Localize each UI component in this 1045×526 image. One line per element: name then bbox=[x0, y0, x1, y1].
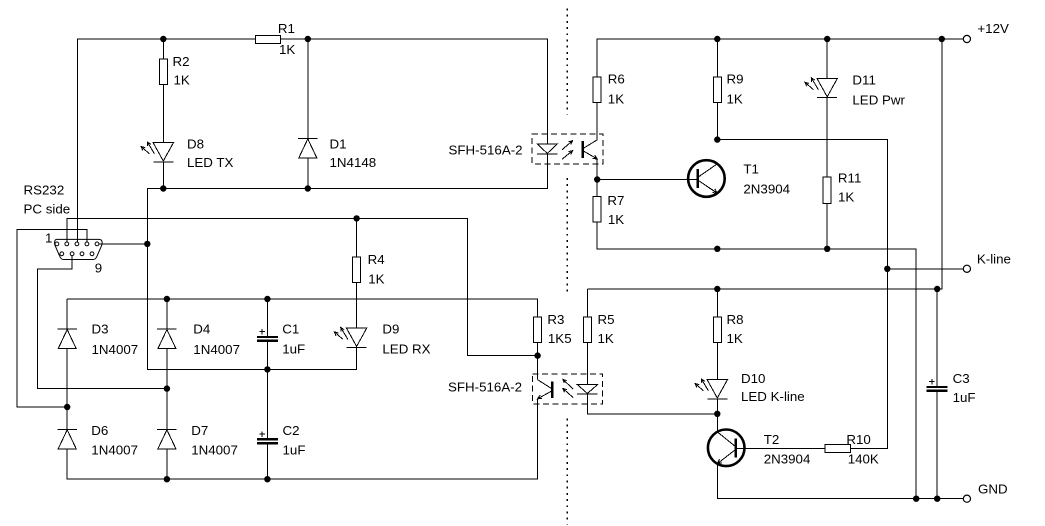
wire R4 top lead bbox=[356, 218, 358, 257]
diode D1 bbox=[298, 138, 318, 158]
junction C3 top bbox=[934, 286, 940, 292]
opto U1 phototransistor bbox=[581, 140, 597, 159]
page divider dotted line bbox=[566, 178, 568, 294]
resistor R9 bbox=[713, 77, 721, 102]
svg-text:LED TX: LED TX bbox=[187, 155, 234, 170]
wire D3 to D6 bbox=[66, 349, 68, 430]
wire R4 to D9 bbox=[356, 283, 358, 328]
wire R5 to opto2 LED bbox=[586, 343, 588, 385]
terminal GND bbox=[963, 495, 970, 502]
junction pin5 node bbox=[144, 241, 150, 247]
opto U2 light arrows bbox=[563, 379, 573, 397]
optocoupler U1 SFH-516A-2 dashed box bbox=[532, 134, 603, 164]
svg-text:1N4007: 1N4007 bbox=[92, 342, 139, 357]
wire C1 bottom to C2 top bbox=[266, 342, 268, 438]
wire R2 to D8 bbox=[162, 85, 164, 143]
resistor R2 bbox=[159, 59, 167, 84]
wire DB9 pin4 to D3-D6 node bbox=[17, 229, 87, 407]
wire R9 top lead bbox=[716, 39, 718, 77]
junction D8 bottom bbox=[160, 185, 166, 191]
svg-text:K-line: K-line bbox=[977, 252, 1011, 267]
svg-text:LED RX: LED RX bbox=[382, 342, 430, 357]
wire DB9 pin5 to TX return rail bbox=[99, 243, 148, 245]
svg-text:1K: 1K bbox=[608, 92, 624, 107]
svg-text:2N3904: 2N3904 bbox=[764, 452, 811, 467]
optocoupler U2 SFH-516A-2 dashed box bbox=[533, 374, 603, 404]
diode D3 bbox=[57, 329, 77, 349]
transistor T1 bbox=[688, 160, 725, 197]
svg-text:LED Pwr: LED Pwr bbox=[852, 93, 905, 108]
svg-text:D6: D6 bbox=[91, 423, 108, 438]
junction D1 bottom bbox=[305, 185, 311, 191]
wire R8 to D10 bbox=[716, 343, 718, 380]
page divider dotted line bbox=[566, 9, 568, 115]
page divider dotted line bbox=[566, 419, 568, 525]
wire C3 top lead bbox=[936, 289, 938, 386]
svg-text:1uF: 1uF bbox=[282, 342, 305, 357]
wire opto1 emitter to base node bbox=[596, 159, 598, 180]
svg-text:D9: D9 bbox=[382, 322, 399, 337]
svg-text:R7: R7 bbox=[607, 193, 624, 208]
resistor R4 bbox=[353, 257, 361, 282]
junction R11 bottom on ground rail bbox=[824, 246, 830, 252]
svg-text:1K: 1K bbox=[727, 92, 743, 107]
wire T1 base bbox=[597, 178, 697, 180]
diode D6 bbox=[57, 429, 77, 449]
junction C2 bottom on rail bbox=[264, 476, 270, 482]
wire D8 cathode to node bbox=[162, 162, 164, 188]
svg-text:D4: D4 bbox=[193, 322, 211, 337]
svg-text:1K: 1K bbox=[727, 331, 743, 346]
LED D8 bbox=[141, 142, 173, 162]
svg-text:R11: R11 bbox=[838, 171, 861, 186]
svg-text:D10: D10 bbox=[741, 371, 765, 386]
wire R7 bottom to ground rail bbox=[597, 222, 916, 499]
svg-text:T1: T1 bbox=[743, 162, 759, 177]
wire C1 top lead bbox=[266, 299, 268, 336]
svg-text:C3: C3 bbox=[953, 371, 970, 386]
resistor R6 bbox=[593, 77, 601, 102]
capacitor C3 bbox=[927, 379, 948, 392]
LED D10 bbox=[695, 379, 727, 399]
wire R2 top lead bbox=[162, 39, 164, 59]
wire D3 top lead bbox=[66, 299, 68, 329]
wire R7 top lead bbox=[596, 180, 598, 197]
wire opto1 LED cathode, TX return rail, down to D9 loop bbox=[147, 154, 547, 370]
LED D9 bbox=[334, 327, 366, 347]
svg-text:LED K-line: LED K-line bbox=[741, 389, 805, 404]
svg-text:1K: 1K bbox=[279, 42, 295, 57]
opto U1 LED bbox=[537, 144, 558, 154]
svg-text:R6: R6 bbox=[608, 72, 625, 87]
wire D1 anode lead bbox=[307, 158, 309, 189]
wire DB9 pin7 to D4-D7 node bbox=[38, 256, 167, 389]
resistor R8 bbox=[713, 317, 721, 342]
capacitor C1 bbox=[257, 329, 278, 342]
svg-text:PC side: PC side bbox=[24, 202, 71, 217]
svg-text:R2: R2 bbox=[173, 54, 190, 69]
svg-text:R1: R1 bbox=[278, 21, 295, 36]
svg-text:1N4007: 1N4007 bbox=[91, 443, 138, 458]
wire D4 to D7 bbox=[166, 349, 168, 430]
opto U2 phototransistor bbox=[538, 380, 554, 399]
wire R6 to opto1 collector bbox=[596, 103, 598, 140]
svg-text:D11: D11 bbox=[852, 73, 875, 88]
svg-text:2N3904: 2N3904 bbox=[743, 181, 790, 196]
svg-text:D8: D8 bbox=[187, 137, 204, 152]
wire +12V distribution to R5 and C3 bbox=[587, 39, 941, 289]
wire R3 bottom to opto2 collector bbox=[537, 343, 539, 380]
wire D11 to R11 bbox=[826, 98, 828, 177]
junction D7 bottom on rail bbox=[164, 476, 170, 482]
wire R9 bottom to collector node bbox=[716, 103, 718, 140]
svg-text:D3: D3 bbox=[92, 322, 109, 337]
resistor R11 bbox=[823, 177, 831, 204]
wire D10 cathode lead bbox=[716, 399, 718, 414]
junction R3 bottom node bbox=[534, 352, 540, 358]
wire C3 bottom lead bbox=[936, 392, 938, 499]
wire RX supply rail into R3 bbox=[67, 299, 537, 317]
junction C3 bottom on GND bbox=[934, 496, 940, 502]
svg-text:1: 1 bbox=[45, 231, 52, 246]
svg-text:D1: D1 bbox=[330, 137, 347, 152]
junction D4-D7 node bbox=[164, 385, 170, 391]
wire R5 top lead bbox=[586, 289, 588, 317]
wire T2 emitter to GND rail bbox=[717, 464, 963, 499]
resistor R3 bbox=[534, 317, 542, 342]
junction +12V drop bbox=[939, 36, 945, 42]
junction R2 top on rail bbox=[160, 36, 166, 42]
wire R8 top lead bbox=[716, 289, 718, 317]
svg-text:1uF: 1uF bbox=[953, 390, 976, 405]
resistor R1 bbox=[255, 36, 280, 44]
svg-text:R8: R8 bbox=[727, 312, 744, 327]
svg-text:9: 9 bbox=[95, 261, 102, 276]
svg-text:140K: 140K bbox=[848, 452, 879, 467]
svg-text:1K: 1K bbox=[838, 190, 854, 205]
junction R4 top bbox=[353, 215, 359, 221]
junction C1 top bbox=[264, 296, 270, 302]
terminal K-line bbox=[963, 265, 970, 272]
junction R8 top bbox=[714, 286, 720, 292]
wire opto2 emitter to bottom rail bbox=[67, 399, 537, 479]
svg-text:R5: R5 bbox=[598, 312, 615, 327]
svg-text:SFH-516A-2: SFH-516A-2 bbox=[448, 380, 522, 395]
wire +12V rail bbox=[597, 39, 963, 77]
svg-text:RS232: RS232 bbox=[24, 183, 65, 198]
svg-text:SFH-516A-2: SFH-516A-2 bbox=[449, 143, 523, 158]
junction D10 bottom node bbox=[714, 411, 720, 417]
svg-text:C2: C2 bbox=[283, 423, 300, 438]
svg-text:1N4007: 1N4007 bbox=[193, 342, 240, 357]
wire D4 top lead bbox=[166, 299, 168, 329]
svg-text:+12V: +12V bbox=[977, 21, 1009, 36]
terminal +12V bbox=[963, 35, 970, 42]
svg-text:R4: R4 bbox=[368, 252, 386, 267]
svg-text:T2: T2 bbox=[764, 432, 780, 447]
wire T2 collector lead bbox=[716, 414, 718, 432]
junction D1 top on rail bbox=[305, 36, 311, 42]
svg-text:R9: R9 bbox=[727, 72, 744, 87]
junction D4 top bbox=[164, 296, 170, 302]
LED D11 bbox=[805, 78, 837, 98]
svg-text:R3: R3 bbox=[547, 312, 564, 327]
junction T1 collector node bbox=[714, 136, 720, 142]
wire pin3 riser + top rail left of R1 bbox=[78, 39, 256, 242]
DB9 connector RS232 bbox=[55, 239, 103, 259]
wire DB9 pin2 to R3 bottom node bbox=[67, 218, 538, 355]
wire opto2 LED cathode to D10 node bbox=[587, 394, 717, 414]
opto U2 LED bbox=[577, 385, 598, 394]
junction D3-D6 node bbox=[64, 404, 70, 410]
wire K-line stub bbox=[887, 268, 963, 270]
resistor R10 bbox=[825, 445, 850, 453]
capacitor C2 bbox=[257, 431, 278, 444]
svg-text:1K5: 1K5 bbox=[548, 331, 572, 346]
resistor R7 bbox=[593, 196, 601, 221]
resistor R5 bbox=[583, 317, 591, 342]
wire D7 bottom lead bbox=[166, 449, 168, 479]
transistor T2 bbox=[708, 430, 745, 467]
junction R9 top on +12V bbox=[714, 36, 720, 42]
junction C1 bottom bbox=[264, 366, 270, 372]
junction K-line node bbox=[884, 266, 890, 272]
wire R11 bottom lead bbox=[826, 204, 828, 249]
junction D11 top on +12V bbox=[824, 36, 830, 42]
svg-text:C1: C1 bbox=[282, 322, 299, 337]
wire D1 cathode lead bbox=[307, 39, 309, 138]
svg-text:1N4148: 1N4148 bbox=[330, 155, 377, 170]
wire D11 anode lead bbox=[826, 39, 828, 78]
svg-text:1K: 1K bbox=[368, 272, 384, 287]
svg-text:GND: GND bbox=[978, 482, 1008, 497]
junction T1 base node bbox=[594, 176, 600, 182]
svg-text:1N4007: 1N4007 bbox=[191, 443, 238, 458]
opto U1 light arrows bbox=[562, 141, 572, 160]
svg-text:1K: 1K bbox=[598, 331, 614, 346]
diode D7 bbox=[157, 429, 177, 449]
svg-text:1K: 1K bbox=[174, 73, 190, 88]
svg-text:D7: D7 bbox=[191, 423, 208, 438]
svg-text:1uF: 1uF bbox=[283, 443, 306, 458]
diode D4 bbox=[157, 329, 177, 349]
junction ground rail on GND bbox=[913, 496, 919, 502]
wire T2 base to R10 bbox=[737, 448, 825, 450]
wire T1 collector node to K-line and R10 bbox=[717, 140, 887, 449]
wire C2 bottom lead bbox=[266, 445, 268, 480]
svg-text:R10: R10 bbox=[846, 432, 870, 447]
svg-text:1K: 1K bbox=[608, 212, 624, 227]
junction T1 emitter on ground rail bbox=[714, 246, 720, 252]
wire top rail right of R1 into opto1 LED anode bbox=[281, 39, 548, 144]
